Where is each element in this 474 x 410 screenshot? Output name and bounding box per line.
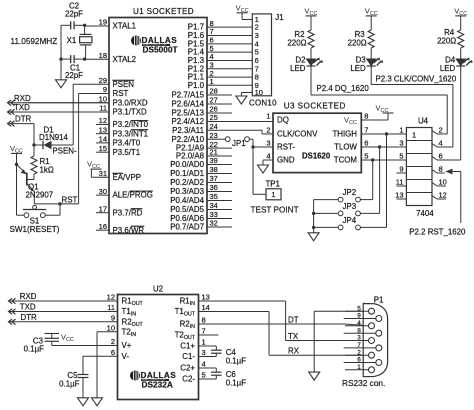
ground at P1 [309, 372, 320, 380]
wire JP1 to U3 RST- [249, 139, 273, 149]
LED D4 [440, 48, 473, 73]
U2 pin 1 [180, 338, 216, 351]
svg-text:RXD: RXD [14, 94, 31, 103]
U1 pin 6 [188, 36, 253, 49]
U4 cell divider [406, 166, 432, 168]
U1 Dallas logo [131, 36, 178, 55]
svg-text:7: 7 [364, 126, 368, 135]
wire D3 cathode to U4 pin4 (net P2.3 CLK/CONV_1620) [371, 67, 453, 147]
U2 pin 10 [107, 324, 137, 338]
U3 pin 1 DQ [266, 112, 289, 125]
wire J1 pin10 to ground [241, 93, 252, 97]
U1 pin 12 [96, 116, 149, 129]
jumper JP3 [338, 202, 360, 216]
U1 pin 1 [188, 77, 253, 90]
svg-text:8: 8 [439, 165, 443, 174]
svg-text:DTR: DTR [15, 115, 32, 124]
LED D2 [290, 48, 323, 73]
power VCC at U3 pin8 [361, 104, 393, 121]
svg-text:2: 2 [111, 337, 115, 346]
svg-text:30: 30 [99, 187, 107, 196]
svg-text:19: 19 [99, 18, 107, 27]
wire C3 to U2 V+ [52, 345, 118, 347]
svg-text:35: 35 [210, 192, 218, 201]
wire DTR to U2 pin9 [9, 321, 118, 323]
U1 pin 15 [96, 144, 140, 157]
resistor R3 220ohm [348, 30, 375, 48]
P1 pin 8 [344, 327, 382, 336]
wire crystal left rail [59, 24, 86, 80]
svg-text:JP1: JP1 [232, 139, 246, 148]
U1 pin 3 [188, 60, 253, 73]
svg-text:5: 5 [364, 152, 368, 161]
svg-text:1: 1 [271, 190, 275, 199]
U1 pin 9 [79, 85, 129, 98]
svg-text:6: 6 [439, 152, 443, 161]
wire JP2 right leg [360, 160, 372, 200]
crystal X1 11.0592MHZ [11, 25, 92, 59]
U4 cell divider [406, 153, 432, 155]
svg-text:8: 8 [202, 316, 206, 325]
svg-text:JP2: JP2 [342, 188, 356, 197]
svg-text:3: 3 [266, 139, 270, 148]
svg-text:RS232 con.: RS232 con. [342, 378, 385, 388]
power VCC at R4 [454, 6, 467, 30]
svg-text:P0.3/AD3: P0.3/AD3 [170, 187, 204, 196]
U2 pin 12 [107, 293, 144, 307]
U1 pin 29 [73, 76, 134, 89]
test point TP1 [251, 179, 299, 214]
U1 pin 21 [176, 148, 232, 161]
svg-text:P2.3/A11: P2.3/A11 [172, 126, 204, 135]
svg-text:CLK/CONV: CLK/CONV [277, 130, 318, 139]
wire R2IN to P1 pin4 (DT) [345, 324, 368, 326]
svg-text:C2-: C2- [182, 375, 195, 384]
wire DTR to diode/resistor junction [9, 124, 36, 147]
wire VCC rail down to switch [16, 164, 18, 215]
U4 pin 2 [432, 126, 448, 135]
svg-text:LED: LED [290, 64, 306, 73]
svg-text:XTAL1: XTAL1 [113, 22, 137, 31]
U2 pin 14 [175, 303, 269, 317]
svg-text:12: 12 [107, 293, 115, 302]
power VCC at R2 [305, 6, 318, 30]
svg-text:P2.4 DQ_1620: P2.4 DQ_1620 [317, 84, 370, 93]
U1 pin 35 [170, 192, 232, 205]
U2 pin 3 [182, 348, 216, 361]
svg-text:220Ω: 220Ω [437, 37, 456, 46]
svg-text:17: 17 [99, 204, 107, 213]
svg-text:PSEN: PSEN [113, 80, 135, 89]
svg-text:U2: U2 [153, 284, 163, 293]
U1 pin 8 [188, 19, 253, 32]
svg-text:1: 1 [399, 126, 403, 135]
ground at U3 [258, 165, 269, 173]
svg-text:P0.1/AD1: P0.1/AD1 [170, 169, 204, 178]
svg-text:10: 10 [439, 178, 447, 187]
U1 pin 23 [172, 131, 226, 144]
svg-text:TXD: TXD [14, 103, 30, 112]
op-amp U2 DS232A body [118, 284, 199, 399]
svg-text:TX: TX [288, 332, 299, 341]
ground below C5 [78, 398, 89, 406]
svg-text:TXD: TXD [20, 303, 36, 312]
wire D4 cathode to U4 pin6 [437, 67, 461, 160]
svg-text:J1: J1 [275, 13, 283, 22]
svg-text:P3.2/INT0: P3.2/INT0 [113, 120, 149, 129]
U3 pin 6 [334, 139, 368, 152]
svg-text:5: 5 [399, 152, 403, 161]
svg-text:DQ: DQ [277, 116, 289, 125]
svg-text:DS1620: DS1620 [302, 152, 331, 161]
jumper JP1 [225, 137, 249, 148]
svg-text:ALE/PROG: ALE/PROG [113, 191, 153, 200]
node DTR (bottom) [9, 313, 38, 325]
U1 pin 34 [170, 201, 232, 214]
U4 pin 10 [432, 178, 447, 187]
svg-text:P2.7/A15: P2.7/A15 [172, 91, 205, 100]
U1 pin 17 [96, 204, 143, 217]
op-amp U3 DS1620 body [273, 102, 361, 173]
svg-text:1: 1 [357, 364, 361, 371]
svg-text:6: 6 [111, 348, 115, 357]
U1 pin 14 [96, 135, 141, 148]
svg-text:0.1µF: 0.1µF [24, 345, 45, 354]
svg-text:36: 36 [210, 183, 218, 192]
svg-text:12: 12 [99, 116, 107, 125]
U1 pin 38 [170, 165, 232, 178]
svg-text:7404: 7404 [416, 209, 434, 218]
svg-text:8: 8 [357, 327, 361, 334]
svg-text:P1.0: P1.0 [188, 81, 205, 90]
svg-text:0.1µF: 0.1µF [226, 379, 247, 388]
svg-text:P3.7/RD: P3.7/RD [113, 208, 143, 217]
U1 pin 32 [170, 219, 232, 232]
U4 pin 11 [396, 178, 407, 187]
wire R1IN to P1 pin3 (TX) [286, 301, 369, 341]
svg-text:5: 5 [357, 305, 361, 312]
svg-text:1: 1 [210, 77, 214, 86]
svg-text:X1: X1 [67, 36, 77, 45]
svg-text:1: 1 [202, 338, 206, 347]
svg-text:P2.2 RST_1620: P2.2 RST_1620 [409, 227, 466, 236]
U4 pin 6 [432, 152, 461, 161]
wire TXD to U1 pin11 [8, 111, 109, 113]
svg-text:P0.2/AD2: P0.2/AD2 [170, 178, 204, 187]
svg-text:37: 37 [210, 174, 218, 183]
wire U2 T2IN to ground [97, 332, 118, 398]
svg-text:34: 34 [210, 201, 218, 210]
U4 cell divider [406, 140, 432, 142]
svg-text:LED: LED [440, 64, 456, 73]
svg-text:16: 16 [99, 222, 107, 231]
node DTR (top) [8, 115, 32, 127]
P1 pin 6 [344, 357, 382, 366]
svg-text:P0.5/AD5: P0.5/AD5 [170, 205, 204, 214]
node TXD (bottom) [9, 303, 36, 315]
svg-text:P0.0/AD0: P0.0/AD0 [170, 160, 204, 169]
svg-text:15: 15 [99, 144, 107, 153]
power VCC at Q1 [10, 144, 23, 166]
U4 pin 1 [397, 126, 407, 135]
ground at J1 [236, 96, 247, 104]
U1 pin 5 [188, 44, 253, 57]
U1 pin 24 [172, 122, 262, 135]
U1 pin 2 [188, 69, 253, 82]
svg-text:6: 6 [357, 357, 361, 364]
wire D2 cathode to U4 pin2 (net P2.4 DQ_1620) [311, 67, 447, 134]
U1 pin 4 [188, 52, 253, 65]
svg-text:2: 2 [439, 126, 443, 135]
wire RXD to U1 pin10 [8, 102, 109, 104]
connector P1 DB9 shell [363, 304, 387, 377]
svg-text:D1N914: D1N914 [39, 133, 69, 142]
U3 pin 2 CLK/CONV [266, 126, 318, 139]
U1 pin 13 [96, 125, 148, 138]
svg-text:RST: RST [113, 89, 129, 98]
U2 pin 2 [111, 337, 132, 350]
svg-text:P0.7/AD7: P0.7/AD7 [170, 223, 204, 232]
svg-text:7: 7 [357, 342, 361, 349]
svg-text:38: 38 [210, 165, 218, 174]
U4 pin 4 [432, 139, 453, 148]
svg-text:18: 18 [99, 51, 107, 60]
resistor R4 220ohm [437, 28, 464, 48]
svg-text:C1-: C1- [182, 352, 195, 361]
capacitor C3 0.1uF with VCC [24, 333, 74, 354]
U1 pin 39 [170, 156, 232, 169]
wire JP4 right leg [360, 134, 386, 227]
wire TXD to U2 pin11 [9, 311, 118, 313]
wire jumper ground bus [312, 200, 315, 233]
LED D3 [350, 48, 383, 73]
U4 cell divider [406, 179, 432, 181]
jumper JP4 [338, 216, 360, 230]
ground at jumper bus [308, 233, 319, 241]
U1 pin 25 [172, 113, 273, 126]
svg-text:XTAL2: XTAL2 [113, 55, 137, 64]
wire T1OUT to P1 pin2 (RX) [269, 312, 368, 356]
U1 pin 19 [85, 18, 136, 31]
node RXD (bottom) [9, 292, 37, 304]
svg-text:CON10: CON10 [249, 98, 277, 107]
U1 pin 18 [85, 51, 136, 64]
ground below T2IN [92, 398, 103, 406]
svg-text:13: 13 [202, 293, 210, 302]
capacitor C1 22pF [61, 55, 85, 80]
wire collector to RST node [34, 195, 78, 205]
U3 pin 7 [332, 126, 368, 139]
svg-text:TP1: TP1 [265, 179, 279, 188]
svg-text:11: 11 [107, 303, 115, 312]
svg-text:4: 4 [266, 152, 270, 161]
svg-text:29: 29 [99, 76, 107, 85]
svg-text:22pF: 22pF [65, 9, 83, 18]
svg-text:JP3: JP3 [342, 202, 356, 211]
U2 pin 4 [180, 360, 216, 373]
switch S1 SW1(RESET) [10, 204, 61, 234]
svg-text:10: 10 [99, 95, 107, 104]
svg-text:RST: RST [62, 195, 78, 204]
U1 pin 10 [28, 95, 148, 108]
svg-text:11: 11 [396, 178, 404, 187]
svg-text:P2.4/A12: P2.4/A12 [172, 117, 204, 126]
svg-text:P3.0/RXD: P3.0/RXD [113, 98, 148, 107]
svg-text:P3.5/T1: P3.5/T1 [113, 148, 141, 157]
U1 pin 26 [172, 105, 232, 118]
U4 pin 13 [395, 191, 406, 200]
svg-text:28: 28 [210, 87, 218, 96]
svg-text:6: 6 [364, 139, 368, 148]
U2 pin 13 [180, 293, 286, 307]
wire U3 THIGH to U4 pin1 [361, 132, 406, 135]
svg-text:2: 2 [357, 349, 361, 356]
svg-text:4: 4 [439, 139, 443, 148]
wire P1 pin5 to ground [314, 311, 368, 372]
svg-text:TLOW: TLOW [334, 143, 357, 152]
svg-text:220Ω: 220Ω [287, 38, 306, 47]
svg-text:C1+: C1+ [180, 342, 195, 351]
connector P1 labels [342, 295, 385, 388]
wire RXD to U2 pin12 [9, 300, 118, 302]
power VCC at U1 pin31 [87, 160, 101, 178]
U2 pin 8 [180, 316, 345, 330]
svg-text:P2.6/A14: P2.6/A14 [172, 100, 205, 109]
op-amp U4 7404 hex inverter body [406, 116, 434, 218]
wire U3 TCOM to U4 pin5 [361, 158, 406, 161]
U2 pin 11 [107, 303, 136, 317]
svg-text:0.1µF: 0.1µF [226, 356, 247, 365]
P1 pin 2 [345, 349, 375, 358]
power VCC at R3 [365, 6, 378, 30]
svg-text:10: 10 [255, 88, 263, 97]
svg-text:24: 24 [210, 122, 218, 131]
jumper JP2 [338, 188, 360, 202]
svg-text:P3.3/INT1: P3.3/INT1 [113, 129, 149, 138]
node RXD (top) [8, 94, 31, 106]
U3 pin 3 RST- [266, 139, 295, 152]
svg-text:32: 32 [210, 219, 218, 228]
P1 pin 7 [344, 342, 382, 351]
svg-text:10: 10 [107, 324, 115, 333]
svg-text:DS5000T: DS5000T [143, 45, 178, 55]
svg-text:25: 25 [210, 113, 218, 122]
svg-text:SW1(RESET): SW1(RESET) [10, 225, 60, 234]
diode D1 D1N914 [34, 126, 73, 150]
svg-text:22pF: 22pF [65, 71, 83, 80]
svg-text:U1 SOCKETED: U1 SOCKETED [133, 7, 194, 16]
P1 pin 3 [345, 335, 375, 344]
svg-text:U4: U4 [418, 116, 429, 125]
svg-text:U3 SOCKETED: U3 SOCKETED [284, 102, 346, 111]
svg-text:2: 2 [266, 126, 270, 135]
svg-text:1: 1 [266, 112, 270, 121]
transistor Q1 2N2907 (PNP) [17, 164, 54, 204]
P1 pin 5 [345, 305, 375, 314]
wire JP3 left leg [314, 212, 339, 214]
P1 pin 9 [344, 313, 382, 322]
U1 pin 28 [172, 87, 232, 100]
U4 pin 3 [397, 139, 407, 148]
wire U1 P2.4 to U3 DQ [207, 121, 273, 123]
U4 pin 9 [397, 165, 407, 174]
P1 pin 1 [345, 364, 375, 373]
capacitor C6 0.1uF [211, 368, 246, 388]
svg-text:9: 9 [111, 314, 115, 323]
svg-text:1kΩ: 1kΩ [40, 166, 54, 175]
svg-text:4: 4 [357, 320, 361, 327]
P1 pin 4 [345, 320, 375, 329]
wire U1 P2.3 to U3 CLK/CONV (jog) [262, 130, 273, 134]
wire U2 V- to C5 [83, 356, 118, 374]
svg-text:P2.2/A10: P2.2/A10 [172, 135, 205, 144]
U1 pin 33 [170, 210, 232, 223]
wire JP2 left leg [314, 199, 339, 201]
svg-text:P3.6/WR: P3.6/WR [113, 226, 145, 235]
svg-text:LED: LED [350, 64, 366, 73]
svg-text:13: 13 [395, 191, 403, 200]
U1 pin 16 [96, 222, 144, 235]
U4 cell divider [406, 192, 432, 194]
capacitor C2 22pF [61, 1, 85, 29]
svg-text:THIGH: THIGH [332, 130, 357, 139]
U2 Dallas logo [130, 371, 176, 390]
U1 pin 27 [172, 96, 232, 109]
U3 pin 4 GND [266, 152, 295, 165]
svg-text:12: 12 [439, 191, 447, 200]
U3 pin 8 [344, 112, 368, 127]
svg-text:RST-: RST- [277, 143, 295, 152]
svg-text:TEST POINT: TEST POINT [251, 205, 299, 214]
node TXD (top) [8, 103, 31, 115]
svg-text:9: 9 [357, 313, 361, 320]
wire U3 TLOW to U4 pin3 [361, 145, 406, 148]
svg-text:27: 27 [210, 96, 218, 105]
svg-text:13: 13 [99, 125, 107, 134]
connector J1 CON10 [249, 13, 284, 107]
svg-text:P0.4/AD4: P0.4/AD4 [170, 196, 204, 205]
U1 pin 36 [170, 183, 232, 196]
wire JP4 left leg [314, 226, 339, 228]
wire RST node up to U1 pin9 [78, 94, 80, 204]
U2 pin 6 [111, 348, 129, 361]
svg-text:JP4: JP4 [342, 216, 356, 225]
svg-text:11.0592MHZ: 11.0592MHZ [11, 37, 58, 46]
capacitor C4 0.1uF [211, 346, 246, 365]
U1 pin 31 [91, 169, 141, 182]
svg-text:0.1µF: 0.1µF [59, 379, 80, 388]
svg-text:11: 11 [99, 104, 107, 113]
U4 pin 12 [432, 191, 447, 200]
power VCC at J1 pin1 [236, 3, 253, 19]
U1 pin 7 [188, 27, 253, 40]
svg-text:RXD: RXD [20, 292, 37, 301]
wire JP3 right leg [360, 147, 379, 213]
U2 pin 7 [175, 327, 219, 341]
svg-text:4: 4 [202, 360, 206, 369]
U1 pin 22 [176, 140, 232, 153]
svg-text:5: 5 [202, 371, 206, 380]
svg-text:7: 7 [202, 327, 206, 336]
svg-text:3: 3 [399, 139, 403, 148]
op-amp U1 DS5000T microcontroller body [109, 7, 207, 233]
svg-text:23: 23 [210, 131, 218, 140]
svg-text:DTR: DTR [21, 313, 38, 322]
U2 pin 5 [182, 371, 216, 384]
svg-text:2N2907: 2N2907 [26, 191, 54, 200]
svg-text:P2.3 CLK/CONV_1620: P2.3 CLK/CONV_1620 [376, 75, 457, 84]
svg-text:V+: V+ [122, 341, 132, 350]
